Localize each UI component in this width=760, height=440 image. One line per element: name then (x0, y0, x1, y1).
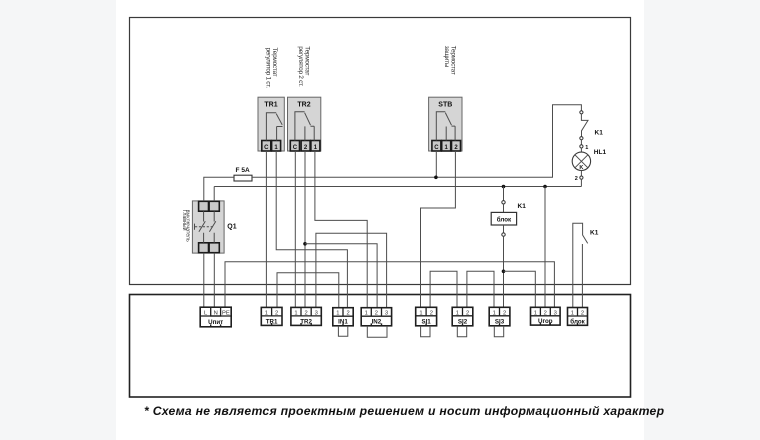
svg-text:2: 2 (575, 176, 578, 182)
svg-text:IN2: IN2 (372, 319, 382, 326)
svg-text:C: C (293, 145, 298, 151)
svg-text:Q1: Q1 (227, 223, 236, 230)
svg-text:2: 2 (346, 311, 349, 317)
svg-text:3: 3 (554, 310, 557, 316)
jumper SI1 1-2 (421, 326, 430, 337)
svg-text:1: 1 (265, 310, 268, 316)
svg-text:TR2: TR2 (297, 102, 310, 109)
annotation: Термостат регулятор 1 ст. (265, 48, 278, 89)
node: line B / Uгор-2 riser (543, 185, 547, 189)
svg-text:1: 1 (571, 311, 574, 317)
svg-text:2: 2 (304, 310, 307, 316)
terminal block SI1 (416, 307, 437, 326)
wire: Q1 N feed (213, 253, 215, 308)
wire: STB C riser (435, 151, 437, 177)
svg-text:2: 2 (466, 310, 469, 316)
terminal strip frame (130, 295, 631, 398)
wire: TR1 C riser (265, 151, 267, 308)
wire: bridge SI1-2 to SI2-1 (430, 271, 457, 307)
wire: bridge SI2-2 to SI3-1 (467, 271, 494, 307)
terminal block TR1 (261, 307, 282, 325)
svg-text:K1: K1 (595, 129, 604, 136)
terminal block IN1 (333, 308, 353, 326)
svg-text:защиты: защиты (443, 46, 450, 68)
wire: TR2 1 to IN2-1 (315, 151, 367, 308)
svg-text:Главный: Главный (181, 210, 188, 231)
safety thermostat STB (429, 97, 462, 151)
wire: line B neutral bus (214, 187, 581, 202)
svg-text:2: 2 (503, 310, 506, 316)
svg-text:блок: блок (497, 217, 512, 224)
svg-text:K1: K1 (518, 203, 527, 210)
svg-text:1: 1 (585, 145, 588, 151)
wire: Uгор-2 riser (544, 187, 546, 308)
fuse F 5A (234, 167, 252, 181)
svg-text:2: 2 (275, 310, 278, 316)
wire: bridge TR1-2 to IN1-1 (277, 273, 339, 308)
svg-text:2: 2 (375, 311, 378, 317)
jumper IN1 1-2 (338, 326, 347, 337)
wire: line A fuse to right riser (252, 105, 581, 178)
wire: TR1 1 to IN1-2 (276, 151, 347, 308)
main schematic frame (130, 18, 631, 285)
svg-text:1: 1 (419, 310, 422, 316)
wire: link TR2-3 to IN2-3 (316, 233, 387, 308)
thermostat TR1 (258, 97, 284, 151)
svg-text:* Схема не является проектным: * Схема не является проектным решением и… (144, 404, 665, 418)
node: блок riser / Uгор-1 branch (502, 270, 506, 274)
contact K1 (to блок terminals) (573, 223, 599, 307)
jumper SI3 1-2 (494, 326, 503, 337)
node: line A / STB C junction (434, 176, 438, 180)
svg-text:1: 1 (534, 310, 537, 316)
terminal block блок (568, 308, 588, 326)
main switch Q1 (192, 201, 236, 253)
terminal block Uпит (200, 307, 231, 327)
svg-text:1: 1 (456, 310, 459, 316)
annotation: Главный выключатель (181, 210, 191, 242)
wire: L line from Q1 to fuse (204, 177, 234, 201)
svg-text:2: 2 (581, 311, 584, 317)
svg-text:3: 3 (315, 310, 318, 316)
lamp HL1 (572, 145, 606, 187)
node: line B / блок riser (502, 185, 506, 189)
thermostat TR2 (288, 97, 321, 151)
wire: TR2 2 riser (304, 151, 306, 308)
canvas white background (116, 0, 644, 440)
wire: branch to Uгор-1 (504, 271, 536, 307)
node: TR2-2 / IN2-2 branch (303, 242, 307, 246)
jumper IN2 1-3 (367, 326, 387, 338)
relay coil блок (K1) (491, 187, 526, 308)
svg-text:HL1: HL1 (594, 149, 607, 156)
terminal block IN2 (361, 308, 391, 326)
wire: PE bus (225, 262, 554, 308)
svg-text:STB: STB (438, 102, 452, 109)
wire: TR2 C riser (294, 151, 296, 308)
annotation: Термостат защиты (443, 46, 456, 75)
svg-text:F 5A: F 5A (236, 167, 250, 174)
annotation: Термостат регулятор 2 ст. (297, 46, 310, 87)
svg-text:K: K (579, 165, 583, 171)
terminal block TR2 (291, 307, 321, 325)
terminal block Uгор (531, 307, 561, 325)
svg-text:3: 3 (385, 311, 388, 317)
svg-text:1: 1 (365, 311, 368, 317)
terminal block SI3 (489, 307, 510, 326)
svg-text:N: N (214, 310, 218, 316)
wire: branch to IN2-2 (305, 244, 377, 308)
jumper SI2 1-2 (457, 326, 466, 337)
svg-text:регулятор 1 ст.: регулятор 1 ст. (265, 48, 272, 89)
svg-text:2: 2 (544, 310, 547, 316)
svg-text:C: C (434, 145, 439, 151)
svg-text:2: 2 (430, 310, 433, 316)
svg-text:PE: PE (222, 310, 230, 316)
svg-text:1: 1 (493, 310, 496, 316)
svg-text:регулятор 2 ст.: регулятор 2 ст. (297, 46, 304, 87)
svg-text:C: C (264, 145, 269, 151)
svg-text:TR1: TR1 (264, 102, 277, 109)
contact K1 (top right) (580, 111, 603, 145)
wire: STB 2 to SI1-1 (421, 151, 456, 307)
terminal block SI2 (452, 307, 473, 326)
svg-text:1: 1 (294, 310, 297, 316)
svg-text:1: 1 (336, 311, 339, 317)
wire: Q1 L feed (203, 253, 205, 308)
svg-text:K1: K1 (590, 229, 599, 236)
